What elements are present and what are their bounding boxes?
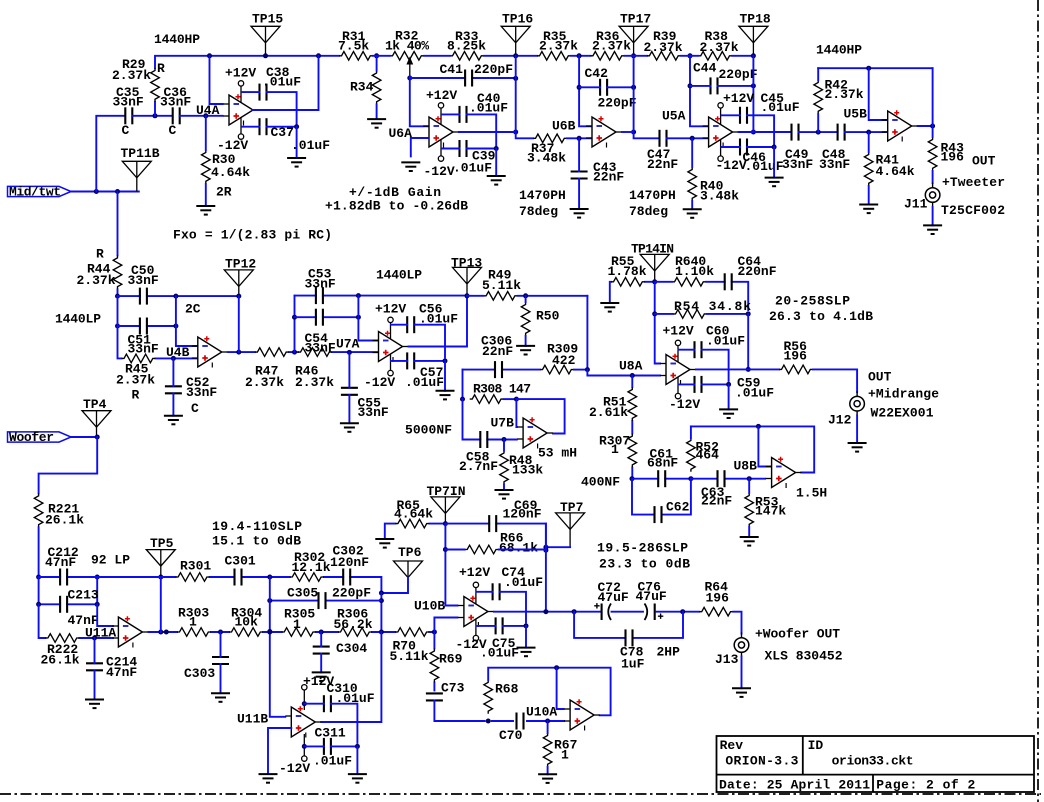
svg-text:TP15: TP15 xyxy=(252,12,283,27)
node C70/R67/U10A+ node xyxy=(545,719,550,724)
resistor R39 xyxy=(647,52,681,61)
node C49/C48/R42 node xyxy=(816,130,821,135)
svg-text:7.5k: 7.5k xyxy=(338,38,369,53)
resistor R29 xyxy=(151,68,160,102)
svg-text:1440HP: 1440HP xyxy=(816,43,862,58)
wire to U8A + riser xyxy=(586,296,588,370)
svg-text:U10A: U10A xyxy=(526,705,557,720)
wire right riser upper xyxy=(380,593,382,632)
node rail/C42 riser node xyxy=(577,53,582,58)
wire U4B - riser xyxy=(176,296,197,346)
wire R49 row xyxy=(467,295,587,297)
ground under R30 xyxy=(196,206,215,215)
svg-text:3.48k: 3.48k xyxy=(527,150,566,165)
node TP14IN node xyxy=(652,279,657,284)
node R47/R46 node xyxy=(292,350,297,355)
svg-text:2.37k: 2.37k xyxy=(539,38,578,53)
ground under C303 xyxy=(211,693,230,702)
resistor R50 xyxy=(521,302,530,336)
node TP12 node xyxy=(236,294,241,299)
title block box xyxy=(717,736,1035,792)
wire C44 riser xyxy=(690,56,708,127)
resistor R55 xyxy=(611,278,645,287)
wire R52 top lead xyxy=(690,426,692,438)
svg-text:.01uF: .01uF xyxy=(469,100,508,115)
ground U8A bypass xyxy=(719,409,738,418)
capacitor C73 xyxy=(426,693,443,700)
svg-text:33nF: 33nF xyxy=(160,94,191,109)
op-amp U4A xyxy=(223,81,259,140)
capacitor C41 xyxy=(465,70,472,87)
node R49/R50 node xyxy=(523,293,528,298)
resistor R49 xyxy=(484,292,518,301)
node TP7IN node xyxy=(443,521,448,526)
wire C44 leads xyxy=(690,85,753,87)
svg-text:R: R xyxy=(132,388,140,403)
capacitor C46 xyxy=(740,139,747,156)
svg-text:W22EX001: W22EX001 xyxy=(871,405,934,420)
resistor R51 xyxy=(628,387,637,421)
resistor R37 xyxy=(533,134,567,143)
resistor R40 xyxy=(688,167,697,201)
svg-text:TP14IN: TP14IN xyxy=(631,242,674,257)
svg-text:133k: 133k xyxy=(512,463,543,478)
wire C42 leads xyxy=(579,86,634,88)
svg-text:2.37k: 2.37k xyxy=(295,375,334,390)
resistor R305 xyxy=(282,628,316,637)
resistor R70 xyxy=(395,628,429,637)
node TP18 riser dots xyxy=(751,53,756,134)
svg-text:.01uF: .01uF xyxy=(405,375,444,390)
svg-text:1k 40%: 1k 40% xyxy=(385,39,429,54)
wire C46 leads xyxy=(722,146,775,148)
capacitor C49 xyxy=(792,124,799,141)
svg-text:2.61k: 2.61k xyxy=(589,405,628,420)
wire bypass gnd drop U10B xyxy=(525,626,527,648)
resistor R68 xyxy=(484,680,493,714)
svg-text:C73: C73 xyxy=(441,681,465,696)
svg-text:C62: C62 xyxy=(666,500,690,515)
wire TP18 riser xyxy=(752,56,754,132)
svg-text:TP13: TP13 xyxy=(451,256,482,271)
op-amp U10A xyxy=(564,699,600,730)
node C305 right node xyxy=(379,598,384,603)
resistor R30 xyxy=(202,150,211,184)
svg-text:33nF: 33nF xyxy=(128,273,159,288)
capacitor C310 xyxy=(324,695,331,712)
resistor R32 pot xyxy=(390,52,424,61)
svg-text:-12V: -12V xyxy=(669,397,700,412)
svg-text:C301: C301 xyxy=(225,554,256,569)
wire R66 leads xyxy=(445,549,546,551)
svg-text:Page: 2 of 2: Page: 2 of 2 xyxy=(876,778,975,793)
resistor R66 xyxy=(465,545,499,554)
capacitor C214 xyxy=(86,663,103,670)
ground under J12 xyxy=(848,443,867,452)
capacitor C57 xyxy=(407,352,414,369)
wire R221 to row1 xyxy=(38,527,40,577)
svg-text:Mid/twt: Mid/twt xyxy=(9,184,61,199)
capacitor C212 xyxy=(60,569,67,586)
wire U7B - riser xyxy=(515,399,517,427)
wire C63 row xyxy=(691,478,765,480)
capacitor C50 xyxy=(140,288,147,305)
resistor R52 xyxy=(687,438,696,472)
svg-text:ORION-3.3: ORION-3.3 xyxy=(725,753,798,768)
wire C49-C48 xyxy=(799,131,838,133)
capacitor C75 xyxy=(496,617,503,634)
resistor R41 xyxy=(864,152,873,186)
capacitor C54 xyxy=(316,309,323,326)
op-amp U8B xyxy=(766,457,802,488)
power pins U11B xyxy=(302,685,307,762)
svg-text:U7B: U7B xyxy=(491,416,515,431)
op-amp U7A xyxy=(373,317,409,376)
wire C53/C54 left riser xyxy=(294,296,296,353)
capacitor C311 xyxy=(324,738,331,755)
wire U5A out to C49 xyxy=(739,131,792,133)
svg-text:Woofer: Woofer xyxy=(9,430,54,445)
capacitor C60 xyxy=(695,341,702,358)
resistor R56 xyxy=(779,365,813,374)
op-amp U8A xyxy=(660,340,696,399)
wire row1 xyxy=(39,577,382,593)
svg-text:+Tweeter: +Tweeter xyxy=(942,175,1005,190)
capacitor C39 xyxy=(460,140,467,157)
wire bypass gnd drop U4A xyxy=(296,127,298,158)
node row2 nodes xyxy=(36,602,100,607)
capacitor C64 xyxy=(725,273,732,290)
ground under R48 xyxy=(495,490,514,499)
wire C40 leads xyxy=(442,114,496,146)
svg-text:R: R xyxy=(157,61,165,76)
node riser row2 node xyxy=(267,629,272,634)
wire bypass gnd drop U5A xyxy=(773,147,775,178)
wire C37 leads xyxy=(242,126,297,128)
resistor R64 xyxy=(699,607,733,616)
svg-text:Date: 25 April 2011: Date: 25 April 2011 xyxy=(719,778,870,793)
wire U6B out xyxy=(622,131,634,133)
node input row junctions xyxy=(94,189,120,194)
svg-text:33nF: 33nF xyxy=(128,341,159,356)
svg-text:422: 422 xyxy=(552,353,576,368)
node out nodes xyxy=(543,609,576,614)
svg-text:19.4-110SLP: 19.4-110SLP xyxy=(212,519,302,534)
svg-text:2.37k: 2.37k xyxy=(700,40,739,55)
svg-text:220pF: 220pF xyxy=(598,96,637,111)
svg-text:1: 1 xyxy=(189,615,197,630)
svg-text:47nF: 47nF xyxy=(106,665,137,680)
svg-text:R34: R34 xyxy=(350,80,374,95)
capacitor C62 xyxy=(655,506,662,523)
svg-text:196: 196 xyxy=(784,349,808,364)
node 400NF node xyxy=(630,476,635,481)
resistor R309 xyxy=(540,365,574,374)
wire out riser up xyxy=(932,68,934,126)
wire R67 leads xyxy=(547,721,549,774)
svg-text:23.3 to 0dB: 23.3 to 0dB xyxy=(599,557,690,572)
capacitor C305 xyxy=(319,592,326,609)
resistor R31 xyxy=(339,52,373,61)
wire mid riser to R44 xyxy=(117,192,119,256)
svg-text:J13: J13 xyxy=(715,652,739,667)
wire C38 leads xyxy=(242,92,297,124)
svg-text:C44: C44 xyxy=(693,61,717,76)
svg-text:26.1k: 26.1k xyxy=(45,513,84,528)
capacitor C38 xyxy=(260,84,267,101)
wire C306 left riser xyxy=(462,370,464,400)
wire node to R37 xyxy=(516,132,533,138)
resistor R44 xyxy=(113,255,122,289)
svg-text:120nF: 120nF xyxy=(330,555,369,570)
svg-text:47uF: 47uF xyxy=(636,589,667,604)
svg-text:1.5H: 1.5H xyxy=(796,485,827,500)
capacitor C58 xyxy=(480,431,487,448)
node TP13 node xyxy=(465,293,470,298)
ground U10B bypass xyxy=(517,648,536,657)
wire wiper riser to U6A - xyxy=(410,77,428,126)
svg-text:47nF: 47nF xyxy=(45,555,76,570)
capacitor C52 xyxy=(165,386,182,393)
svg-text:T25CF002: T25CF002 xyxy=(941,203,1005,218)
svg-text:U10B: U10B xyxy=(414,599,445,614)
node TP17 riser dots xyxy=(631,53,636,134)
wire U7B feedback xyxy=(516,399,564,433)
svg-text:+12V: +12V xyxy=(663,324,694,339)
wire U10A - riser xyxy=(557,668,564,709)
test point TP4 xyxy=(82,411,111,437)
svg-text:8.25k: 8.25k xyxy=(447,38,486,53)
wire TP7 link xyxy=(546,546,570,548)
svg-text:.01uF: .01uF xyxy=(504,575,543,590)
node C311 tap xyxy=(302,744,307,749)
sheet border right xyxy=(1037,0,1039,802)
svg-text:orion33.ckt: orion33.ckt xyxy=(832,753,914,768)
wire U4A output xyxy=(253,56,319,110)
wire bypass gnd drop U7A xyxy=(444,361,446,391)
svg-text:2.37k: 2.37k xyxy=(245,375,284,390)
svg-text:C41: C41 xyxy=(440,62,464,77)
op-amp U4B xyxy=(192,336,228,367)
capacitor C47 xyxy=(660,130,667,147)
svg-text:C42: C42 xyxy=(585,66,609,81)
wire U8A output xyxy=(696,368,779,370)
svg-text:C303: C303 xyxy=(184,666,215,681)
op-amp U10B xyxy=(458,582,494,641)
svg-text:.01uF: .01uF xyxy=(480,646,519,661)
wire C42 riser xyxy=(579,56,591,127)
svg-text:R68: R68 xyxy=(495,682,519,697)
capacitor C74 xyxy=(493,583,500,600)
resistor R33 xyxy=(450,52,484,61)
svg-text:220pF: 220pF xyxy=(332,586,371,601)
svg-text:78deg: 78deg xyxy=(519,204,558,219)
svg-text:5.11k: 5.11k xyxy=(390,649,429,664)
ground U7A bypass xyxy=(436,391,455,400)
svg-text:2.37k: 2.37k xyxy=(77,273,116,288)
svg-text:220pF: 220pF xyxy=(474,62,513,77)
node C44 right node xyxy=(751,83,756,88)
node C37/C38 gnd node xyxy=(294,124,299,129)
wire C306 branch xyxy=(463,369,540,371)
ground U4A bypass xyxy=(287,158,306,167)
wire R308 right xyxy=(504,398,517,400)
wire U10B output xyxy=(494,611,600,613)
capacitor C70 xyxy=(517,713,524,730)
capacitor C55 xyxy=(341,388,358,395)
svg-text:68nF: 68nF xyxy=(647,456,678,471)
wire bypass gnd drop U8A xyxy=(728,384,730,409)
resistor R308 xyxy=(470,395,504,404)
node C51 right node xyxy=(173,324,178,329)
svg-text:4.64k: 4.64k xyxy=(211,165,250,180)
node C50/C51 left nodes xyxy=(115,294,120,329)
capacitor C43 xyxy=(571,172,588,179)
node fb top node xyxy=(866,66,871,71)
node C50 right node xyxy=(173,294,178,299)
wire C39 leads xyxy=(442,148,496,150)
svg-text:+12V: +12V xyxy=(459,565,490,580)
svg-text:33nF: 33nF xyxy=(819,157,850,172)
wire R41 leads xyxy=(868,132,870,204)
wire C47 to U5A + xyxy=(667,137,709,139)
svg-text:220nF: 220nF xyxy=(738,264,777,279)
node U8A out node xyxy=(746,367,751,372)
svg-text:2.37k: 2.37k xyxy=(644,40,683,55)
svg-text:+12V: +12V xyxy=(225,66,256,81)
svg-text:2.37k: 2.37k xyxy=(592,38,631,53)
wire C69 row xyxy=(445,524,546,548)
wire J11 to gnd xyxy=(932,207,934,225)
svg-text:464: 464 xyxy=(696,448,720,463)
resistor R221 xyxy=(34,493,43,527)
node U4B out node xyxy=(236,350,241,355)
resistor R38 xyxy=(698,52,732,61)
node C39/C40 gnd node xyxy=(494,146,499,151)
svg-text:+12V: +12V xyxy=(723,91,754,106)
ground under R50 xyxy=(516,346,535,355)
op-amp U5B xyxy=(882,110,918,141)
ground under R40 xyxy=(683,209,702,218)
svg-text:4.64k: 4.64k xyxy=(394,507,433,522)
resistor R36 xyxy=(590,52,624,61)
wire rail segment R39-R38 xyxy=(681,55,698,57)
capacitor C301 xyxy=(235,569,242,586)
capacitor C44 xyxy=(711,77,718,94)
wire R43 leads xyxy=(932,126,934,183)
svg-text:+12V: +12V xyxy=(375,302,406,317)
svg-text:10k: 10k xyxy=(235,615,259,630)
op-amp U6B xyxy=(586,116,622,147)
wire woofer input xyxy=(71,436,97,438)
svg-text:2R: 2R xyxy=(216,185,232,200)
test point TP6 xyxy=(394,561,423,578)
wire C311 gnd drop xyxy=(356,746,358,774)
wire R30 leads xyxy=(205,116,207,206)
ground under C304 xyxy=(312,672,331,681)
svg-text:120nF: 120nF xyxy=(503,507,542,522)
wire C35 to C36 xyxy=(132,115,172,117)
node C76/C78 node xyxy=(680,609,685,614)
node TP16 riser dots xyxy=(513,53,518,134)
wire C51 row xyxy=(118,296,176,326)
svg-text:1470PH: 1470PH xyxy=(519,188,566,203)
capacitor C37 xyxy=(260,118,267,135)
op-amp U11A xyxy=(112,616,148,647)
wire U8A - riser xyxy=(655,282,660,364)
ground U5A bypass xyxy=(765,178,784,187)
resistor R304 xyxy=(229,628,263,637)
resistor R46 xyxy=(298,348,332,357)
svg-text:1: 1 xyxy=(611,442,619,457)
svg-text:C: C xyxy=(122,123,130,138)
capacitor C48 xyxy=(838,124,845,141)
svg-text:R54 34.8k: R54 34.8k xyxy=(674,299,751,314)
wire U7A - riser xyxy=(358,296,378,341)
wire U8B feedback xyxy=(691,426,814,472)
capacitor C306 xyxy=(495,361,502,378)
wire C36 to U4A + xyxy=(180,115,223,117)
svg-text:33nF: 33nF xyxy=(186,385,217,400)
svg-text:XLS 830452: XLS 830452 xyxy=(765,649,843,664)
capacitor C78 xyxy=(626,629,633,646)
svg-text:22nF: 22nF xyxy=(647,157,678,172)
wire C310 leads xyxy=(304,704,357,743)
node C45/C46 gnd node xyxy=(772,145,777,150)
svg-text:1: 1 xyxy=(293,617,301,632)
wire C43 leads xyxy=(578,138,580,209)
svg-text:.01uF: .01uF xyxy=(735,386,774,401)
svg-text:J12: J12 xyxy=(828,413,852,428)
svg-text:22nF: 22nF xyxy=(482,344,513,359)
test point TP11B xyxy=(122,161,151,191)
svg-text:TP4: TP4 xyxy=(83,397,107,412)
svg-text:2C: 2C xyxy=(185,302,201,317)
test point TP16 xyxy=(501,26,530,56)
svg-text:U6A: U6A xyxy=(389,126,413,141)
wire C48 to U5B + xyxy=(845,131,888,133)
svg-text:ID: ID xyxy=(808,738,824,753)
node C53/C54 right nodes xyxy=(356,293,361,320)
svg-text:-12V: -12V xyxy=(217,138,248,153)
node U7A+/C55 node xyxy=(347,350,352,355)
svg-text:-12V: -12V xyxy=(279,761,310,776)
wire U5B out xyxy=(918,125,933,127)
wire TP12 riser down xyxy=(238,296,240,352)
wire R44 to node xyxy=(117,289,119,296)
wire rail end xyxy=(732,55,753,57)
svg-text:19.5-286SLP: 19.5-286SLP xyxy=(597,541,688,556)
resistor R45 xyxy=(122,354,156,363)
wire U8A + jog xyxy=(587,370,660,376)
wire rail segment R36-R39 xyxy=(624,55,647,57)
svg-text:78deg: 78deg xyxy=(629,204,668,219)
op-amp U7B xyxy=(517,417,553,448)
ground under C55 xyxy=(340,423,359,432)
svg-text:92 LP: 92 LP xyxy=(91,553,130,568)
wire R309 to node xyxy=(574,369,587,371)
svg-text:12.1k: 12.1k xyxy=(292,560,331,575)
wire left riser xyxy=(270,577,286,717)
svg-text:U5B: U5B xyxy=(844,107,868,122)
test point TP5 xyxy=(146,550,175,577)
node C59/C60 gnd node xyxy=(726,382,731,387)
ground U6A bypass xyxy=(487,176,506,185)
node C35/C36/R29 node xyxy=(153,113,158,118)
svg-text:R69: R69 xyxy=(439,652,463,667)
wire riser to U4A - xyxy=(210,56,223,104)
node C310 tap xyxy=(302,701,307,706)
